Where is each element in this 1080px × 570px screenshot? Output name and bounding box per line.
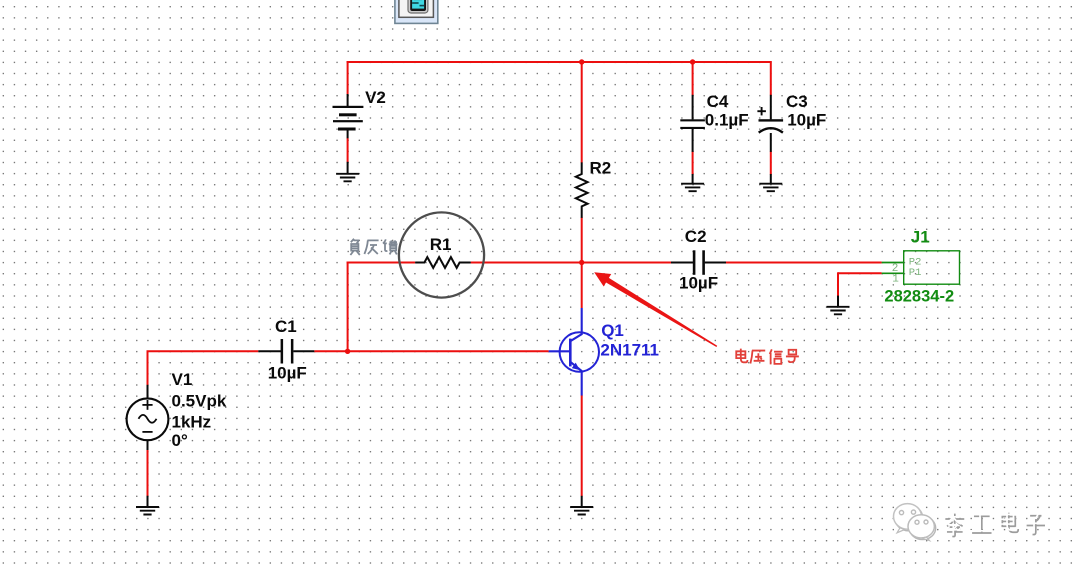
svg-text:P1: P1 [909, 267, 922, 279]
svg-text:10µF: 10µF [787, 111, 826, 130]
svg-text:0.1µF: 0.1µF [705, 111, 749, 130]
svg-text:1kHz: 1kHz [172, 413, 212, 432]
svg-text:2N1711: 2N1711 [600, 341, 659, 360]
svg-text:10µF: 10µF [679, 274, 718, 293]
svg-text:C4: C4 [707, 92, 729, 111]
svg-text:J1: J1 [911, 227, 930, 246]
svg-text:C1: C1 [275, 317, 297, 336]
svg-text:Q1: Q1 [601, 321, 624, 340]
svg-text:1: 1 [892, 274, 899, 286]
svg-text:R1: R1 [430, 235, 452, 254]
svg-text:C2: C2 [685, 227, 707, 246]
svg-text:C3: C3 [786, 92, 808, 111]
svg-text:R2: R2 [590, 159, 612, 178]
svg-text:282834-2: 282834-2 [884, 288, 954, 306]
svg-text:0°: 0° [172, 431, 188, 450]
svg-text:V2: V2 [365, 88, 386, 107]
svg-text:0.5Vpk: 0.5Vpk [172, 392, 227, 411]
svg-text:10µF: 10µF [268, 364, 307, 383]
svg-text:V1: V1 [172, 370, 193, 389]
